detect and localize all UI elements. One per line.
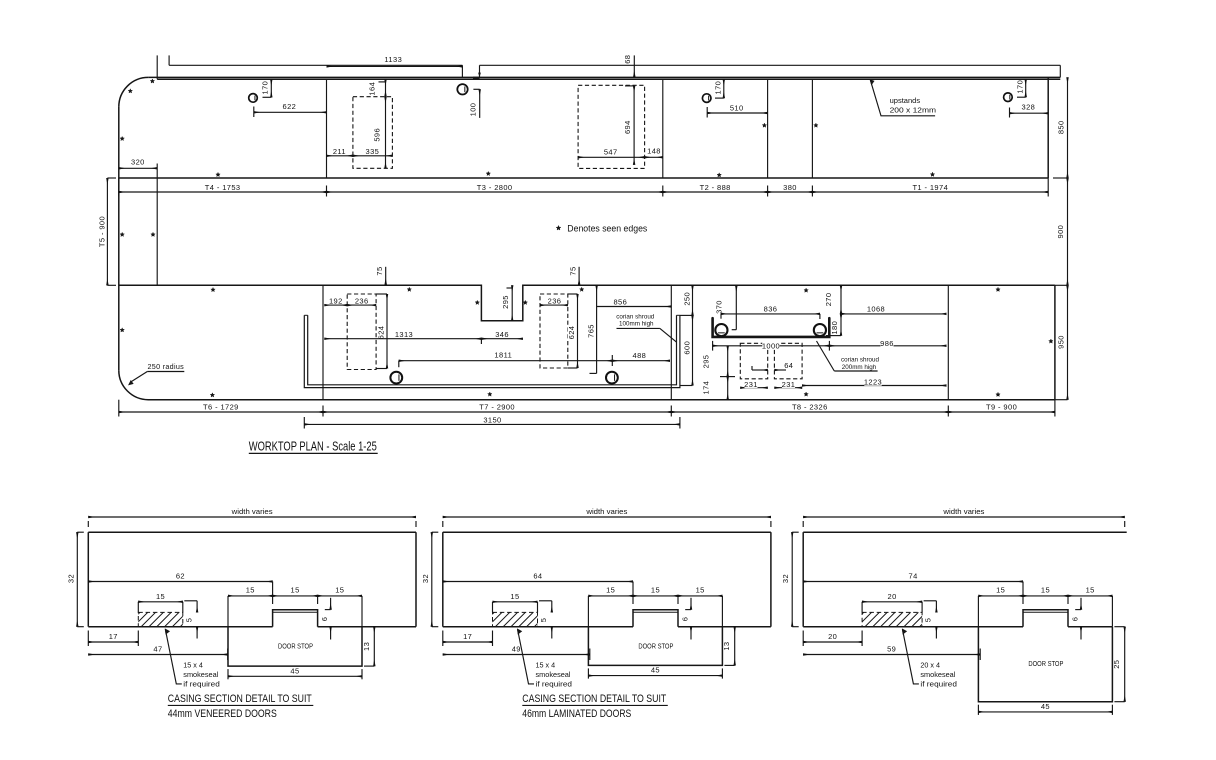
svg-text:T9 - 900: T9 - 900: [986, 403, 1017, 412]
svg-text:295: 295: [501, 295, 510, 309]
svg-text:170: 170: [714, 81, 723, 95]
svg-text:DOOR STOP: DOOR STOP: [278, 644, 313, 651]
svg-text:856: 856: [613, 297, 627, 306]
svg-text:13: 13: [722, 641, 731, 650]
svg-text:624: 624: [377, 326, 386, 340]
svg-text:17: 17: [463, 632, 472, 641]
svg-text:62: 62: [176, 572, 185, 581]
svg-text:174: 174: [702, 381, 711, 395]
svg-text:smokeseal: smokeseal: [536, 670, 571, 679]
svg-text:950: 950: [1056, 335, 1065, 349]
svg-text:DOOR STOP: DOOR STOP: [638, 644, 673, 651]
svg-text:836: 836: [764, 304, 778, 313]
svg-text:T2 - 888: T2 - 888: [700, 183, 731, 192]
svg-text:15: 15: [606, 585, 615, 594]
svg-text:75: 75: [569, 266, 578, 275]
svg-text:624: 624: [567, 326, 576, 340]
svg-text:smokeseal: smokeseal: [920, 670, 955, 679]
svg-text:49: 49: [512, 644, 521, 653]
svg-text:32: 32: [781, 574, 790, 583]
svg-text:295: 295: [702, 355, 711, 369]
svg-text:15 x 4: 15 x 4: [536, 660, 556, 669]
svg-text:320: 320: [131, 158, 145, 167]
svg-text:250: 250: [683, 292, 692, 306]
svg-text:75: 75: [375, 266, 384, 275]
svg-text:45: 45: [1041, 702, 1050, 711]
svg-text:180: 180: [830, 321, 839, 335]
svg-text:32: 32: [421, 574, 430, 583]
svg-text:width varies: width varies: [942, 507, 985, 516]
svg-text:T5 - 900: T5 - 900: [98, 216, 107, 247]
svg-text:370: 370: [715, 300, 724, 314]
svg-text:T4 - 1753: T4 - 1753: [205, 183, 241, 192]
svg-text:45: 45: [290, 666, 299, 675]
svg-text:765: 765: [586, 324, 595, 338]
svg-text:T8 - 2326: T8 - 2326: [792, 403, 828, 412]
svg-text:20 x 4: 20 x 4: [920, 660, 940, 669]
svg-text:corian shroud: corian shroud: [841, 357, 879, 364]
svg-text:smokeseal: smokeseal: [183, 670, 218, 679]
svg-text:6: 6: [680, 617, 689, 622]
svg-text:170: 170: [260, 81, 269, 95]
svg-text:547: 547: [604, 148, 618, 157]
svg-text:488: 488: [633, 351, 647, 360]
svg-text:5: 5: [924, 618, 933, 623]
svg-text:corian shroud: corian shroud: [616, 313, 654, 320]
svg-text:15 x 4: 15 x 4: [183, 660, 203, 669]
svg-text:231: 231: [744, 380, 758, 389]
svg-text:47: 47: [153, 644, 162, 653]
svg-text:64: 64: [784, 361, 793, 370]
svg-text:250 radius: 250 radius: [148, 362, 185, 371]
svg-text:20: 20: [888, 592, 897, 601]
svg-text:200mm high: 200mm high: [842, 364, 877, 371]
svg-text:17: 17: [109, 632, 118, 641]
svg-text:1133: 1133: [384, 55, 402, 64]
svg-text:236: 236: [548, 296, 562, 305]
svg-text:622: 622: [283, 102, 297, 111]
svg-text:64: 64: [533, 572, 542, 581]
svg-text:200 x 12mm: 200 x 12mm: [890, 108, 937, 115]
svg-text:15: 15: [291, 585, 300, 594]
svg-text:15: 15: [651, 585, 660, 594]
svg-text:if required: if required: [536, 679, 573, 688]
svg-text:DOOR STOP: DOOR STOP: [1028, 661, 1063, 668]
svg-text:1000: 1000: [762, 341, 780, 350]
svg-text:100: 100: [469, 103, 478, 117]
svg-text:900: 900: [1056, 225, 1065, 239]
svg-text:13: 13: [362, 642, 371, 651]
svg-text:148: 148: [647, 146, 661, 155]
svg-text:986: 986: [880, 339, 894, 348]
svg-text:if required: if required: [183, 679, 220, 688]
svg-text:100mm high: 100mm high: [619, 321, 654, 328]
svg-text:T6 - 1729: T6 - 1729: [203, 403, 239, 412]
svg-text:335: 335: [366, 147, 380, 156]
svg-text:5: 5: [184, 618, 193, 623]
svg-text:328: 328: [1022, 103, 1036, 112]
svg-text:15: 15: [1086, 585, 1095, 594]
svg-text:T7 - 2900: T7 - 2900: [479, 403, 515, 412]
svg-text:380: 380: [783, 183, 797, 192]
svg-text:510: 510: [730, 104, 744, 113]
svg-text:15: 15: [246, 585, 255, 594]
svg-text:CASING SECTION DETAIL TO SUIT: CASING SECTION DETAIL TO SUIT: [522, 693, 666, 705]
svg-text:upstands: upstands: [890, 98, 921, 105]
svg-text:850: 850: [1056, 120, 1065, 134]
svg-text:164: 164: [367, 82, 376, 96]
svg-text:211: 211: [333, 147, 346, 156]
svg-text:CASING SECTION DETAIL TO SUIT: CASING SECTION DETAIL TO SUIT: [168, 693, 312, 705]
svg-text:if required: if required: [920, 679, 957, 688]
svg-text:6: 6: [320, 617, 329, 622]
svg-text:46mm LAMINATED DOORS: 46mm LAMINATED DOORS: [522, 708, 631, 720]
svg-text:45: 45: [651, 666, 660, 675]
svg-text:20: 20: [828, 632, 837, 641]
svg-text:59: 59: [887, 644, 896, 653]
svg-text:596: 596: [372, 128, 381, 142]
svg-text:15: 15: [510, 592, 519, 601]
svg-text:6: 6: [1070, 617, 1079, 622]
svg-text:15: 15: [335, 585, 344, 594]
svg-text:width varies: width varies: [585, 507, 628, 516]
svg-text:15: 15: [996, 585, 1005, 594]
svg-text:74: 74: [909, 572, 918, 581]
svg-text:25: 25: [1112, 660, 1121, 669]
svg-text:T1 - 1974: T1 - 1974: [912, 183, 948, 192]
svg-text:width varies: width varies: [231, 507, 274, 516]
svg-text:346: 346: [495, 330, 509, 339]
svg-text:170: 170: [1015, 80, 1024, 94]
svg-text:WORKTOP PLAN - Scale 1-25: WORKTOP PLAN - Scale 1-25: [249, 438, 377, 453]
svg-text:1068: 1068: [867, 305, 885, 314]
svg-text:270: 270: [824, 293, 833, 307]
svg-text:231: 231: [782, 380, 796, 389]
svg-text:1313: 1313: [395, 330, 413, 339]
svg-text:15: 15: [696, 585, 705, 594]
svg-text:32: 32: [66, 574, 75, 583]
svg-text:694: 694: [623, 120, 632, 134]
svg-text:Denotes seen edges: Denotes seen edges: [567, 223, 647, 233]
svg-text:5: 5: [539, 618, 548, 623]
svg-text:15: 15: [156, 592, 165, 601]
svg-text:600: 600: [683, 341, 692, 355]
svg-text:44mm VENEERED DOORS: 44mm VENEERED DOORS: [168, 708, 277, 720]
svg-text:1811: 1811: [494, 351, 512, 360]
svg-text:192: 192: [329, 296, 343, 305]
svg-text:236: 236: [355, 296, 369, 305]
svg-text:68: 68: [623, 55, 632, 64]
svg-text:1223: 1223: [864, 378, 882, 387]
svg-text:15: 15: [1041, 585, 1050, 594]
svg-text:T3 - 2800: T3 - 2800: [477, 183, 513, 192]
svg-text:3150: 3150: [483, 416, 501, 425]
